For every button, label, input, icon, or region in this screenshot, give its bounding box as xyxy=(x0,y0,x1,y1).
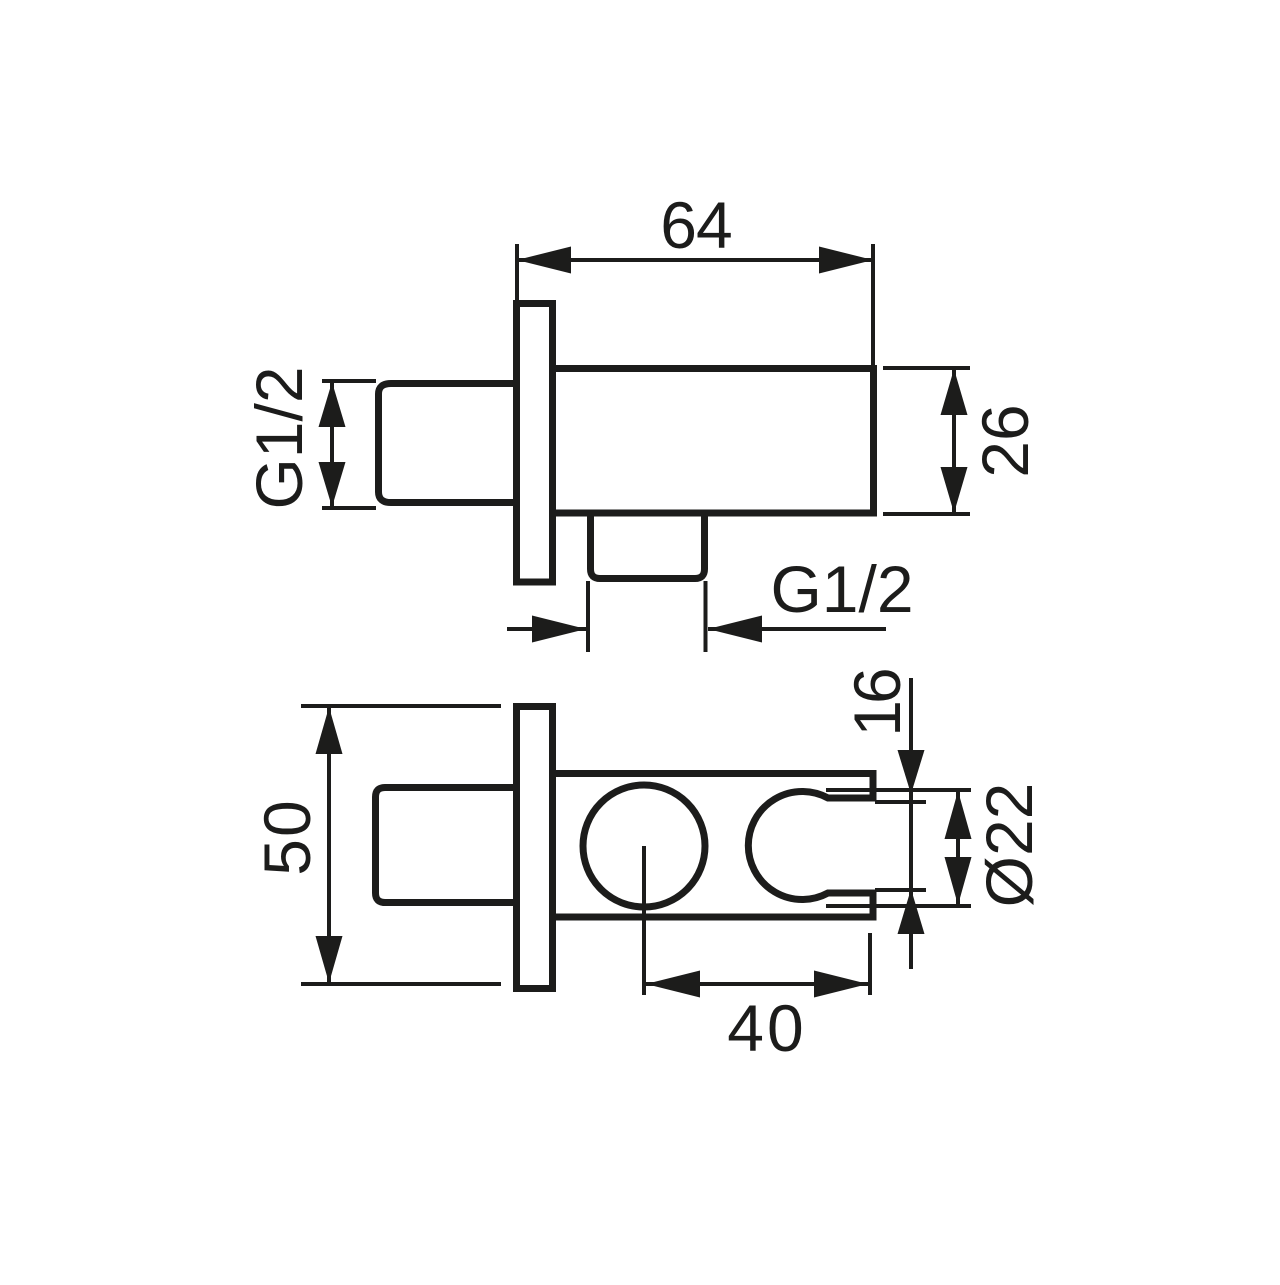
svg-text:64: 64 xyxy=(660,188,731,262)
bottom view: holder body with fork opening xyxy=(556,774,873,918)
dimension G1/2 (outlet): extension lines xyxy=(588,581,706,652)
svg-text:50: 50 xyxy=(250,798,324,875)
bottom view: wall flange plate xyxy=(517,707,553,989)
dimension O22: tick lines xyxy=(826,790,971,906)
svg-text:G1/2: G1/2 xyxy=(242,366,316,509)
side view: bottom outlet G1/2 xyxy=(591,513,705,579)
dimension 16: arrows xyxy=(898,750,925,934)
side view: inlet spout G1/2 xyxy=(379,384,514,503)
dimension 26: arrows xyxy=(941,369,968,513)
svg-text:26: 26 xyxy=(968,404,1042,477)
dimension G1/2 (outlet): arrows pointing inward xyxy=(507,616,886,643)
bottom view: hole circle xyxy=(583,785,705,907)
dimension 16: dimension line through xyxy=(909,678,913,969)
dimension G1/2 (inlet): arrows xyxy=(319,382,346,507)
dimension 40: arrows xyxy=(646,971,868,998)
dimension 40: extension lines xyxy=(644,846,870,995)
svg-text:16: 16 xyxy=(840,670,914,737)
bottom view: inlet spout xyxy=(376,788,514,903)
dimension 26: tick lines xyxy=(883,368,970,514)
svg-text:40: 40 xyxy=(727,991,806,1065)
side view: wall flange plate xyxy=(517,304,553,583)
side view: body rectangle 64x26 xyxy=(552,369,874,514)
svg-text:Ø22: Ø22 xyxy=(972,783,1046,908)
svg-text:G1/2: G1/2 xyxy=(770,552,913,626)
dimension 64: dimension line with arrows xyxy=(517,247,873,274)
dimension 50: tick lines xyxy=(301,706,501,984)
dimension 50: arrows xyxy=(316,707,343,983)
dimension G1/2 (inlet): tick lines xyxy=(322,381,376,508)
dimension 64: extension lines xyxy=(517,244,873,366)
dimension 16: tick lines xyxy=(875,802,926,890)
dimension O22: arrows xyxy=(945,791,972,905)
